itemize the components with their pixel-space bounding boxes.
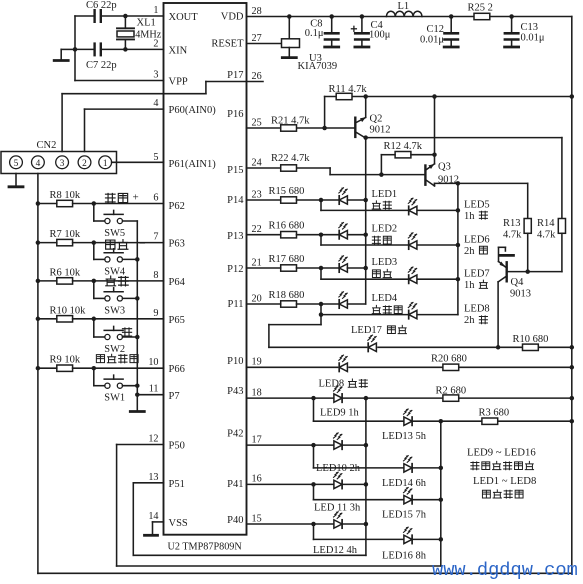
svg-text:P64: P64 — [169, 277, 186, 288]
wire LED17 row — [269, 346, 572, 348]
svg-text:17: 17 — [252, 434, 262, 445]
switch SW3 — [104, 288, 125, 317]
resistor R22 — [271, 153, 310, 171]
svg-text:P63: P63 — [169, 239, 185, 250]
pin 9 P65 label — [153, 308, 184, 326]
wire SW1 left — [94, 368, 105, 386]
node key tap row2 — [92, 279, 97, 284]
svg-text:LED7: LED7 — [464, 269, 490, 280]
node right bus R10 — [570, 345, 575, 350]
label LED4 — [372, 293, 403, 314]
node LED10 right — [364, 443, 369, 448]
wire P41 row — [247, 483, 366, 485]
wire SW3 left — [94, 281, 105, 299]
pin 24 P15 label — [227, 157, 262, 176]
wire VSS pin14 — [153, 522, 164, 534]
pin 4 P60(AIN0) label — [153, 98, 216, 116]
LED LED8 start — [339, 355, 348, 372]
svg-text:14: 14 — [148, 511, 158, 522]
pin 28 VDD label — [221, 6, 262, 23]
resistor R18 — [247, 290, 340, 307]
node right bus R20 — [570, 365, 575, 370]
wire P43 row — [247, 397, 572, 399]
node R12 right — [432, 152, 437, 157]
wire LED17 step — [269, 315, 321, 348]
svg-text:P65: P65 — [169, 315, 185, 326]
node column1 LED3 — [363, 266, 368, 271]
node P7 join — [135, 392, 140, 397]
pin 27 RESET label — [211, 33, 261, 50]
svg-text:P51: P51 — [169, 479, 185, 490]
node Q2 base junction — [322, 126, 327, 131]
pin 19 P10 label — [227, 356, 262, 368]
node right bus R11 — [570, 94, 575, 99]
label LED12 4h — [313, 545, 358, 556]
svg-text:LED14 6h: LED14 6h — [382, 478, 427, 489]
pin 15 P40 label — [227, 513, 262, 526]
svg-text:C12: C12 — [426, 24, 444, 35]
label LED6 — [464, 235, 490, 258]
svg-text:P15: P15 — [227, 165, 243, 176]
svg-text:P40: P40 — [227, 515, 243, 526]
svg-text:www.dgdqw.com: www.dgdqw.com — [432, 559, 578, 581]
wire CN2 pin3 to P17 route — [62, 82, 263, 152]
pin 1 XOUT label — [153, 5, 198, 23]
LED LED2 — [339, 222, 366, 239]
svg-text:5: 5 — [14, 159, 19, 169]
wire SW2 right — [123, 336, 138, 338]
node column1 LED1 — [363, 198, 368, 203]
svg-text:R15 680: R15 680 — [269, 186, 305, 197]
transistor Q2 9012 — [355, 114, 390, 139]
resistor R20 — [431, 354, 467, 371]
svg-text:SW3: SW3 — [104, 305, 125, 316]
resistor R15 — [247, 186, 340, 203]
node U3 top — [287, 14, 292, 19]
pin 7 P63 label — [153, 232, 184, 250]
wire R12 right up — [434, 97, 436, 164]
pin 25 P16 label — [227, 109, 262, 128]
resistor R13 — [503, 218, 531, 272]
svg-text:XIN: XIN — [169, 46, 188, 57]
svg-text:VSS: VSS — [169, 518, 188, 529]
switch SW4 — [104, 249, 126, 278]
resistor R3 — [479, 408, 510, 425]
connector CN2 — [1, 152, 117, 174]
node LED8 branch corner — [319, 312, 324, 317]
wire R22 pin24 — [247, 168, 426, 175]
wire XIN pin2 to C7 — [101, 48, 164, 50]
svg-text:VPP: VPP — [169, 77, 188, 88]
IC U3 KIA7039 — [282, 17, 338, 73]
capacitor C12 — [420, 14, 458, 47]
label LED15 7h — [382, 510, 427, 521]
svg-text:LED13 5h: LED13 5h — [382, 431, 427, 442]
svg-text:LED3: LED3 — [372, 257, 398, 268]
node LED14 right — [439, 466, 444, 471]
node LED12 right — [364, 522, 369, 527]
label gongnengxuanze (function select) — [96, 354, 138, 363]
resistor R11 — [329, 84, 368, 100]
node LED15 right — [439, 497, 444, 502]
ground crystal block — [54, 49, 75, 60]
wire CN2 pin2 to P60 pin4 — [85, 109, 164, 151]
node SW2 join — [135, 335, 140, 340]
resistor R16 — [247, 221, 340, 238]
resistor R7 — [38, 229, 164, 246]
wire VDD rail — [247, 16, 572, 18]
svg-text:P60(AIN0): P60(AIN0) — [169, 105, 217, 116]
capacitor C8 — [305, 14, 339, 47]
svg-text:LED5: LED5 — [464, 200, 490, 211]
svg-text:P10: P10 — [227, 356, 243, 367]
svg-text:100μ: 100μ — [369, 30, 391, 41]
svg-text:P61(AIN1): P61(AIN1) — [169, 159, 217, 170]
svg-text:4.7k: 4.7k — [537, 230, 556, 241]
label LED9 1h — [320, 408, 360, 419]
wire CN2 pin1 to P61 pin5 — [112, 161, 164, 163]
label guan (off) — [122, 328, 131, 337]
svg-text:P66: P66 — [169, 364, 185, 375]
node XL1 bottom — [123, 47, 128, 52]
label kaishi (start) — [106, 276, 128, 286]
label LED2 — [372, 224, 398, 245]
svg-text:5: 5 — [153, 152, 158, 163]
svg-text:SW1: SW1 — [104, 393, 125, 404]
wire branch LED6 — [321, 235, 408, 245]
pin 20 P11 label — [228, 293, 262, 310]
pin 6 P62 label — [153, 193, 184, 213]
svg-text:3: 3 — [153, 70, 158, 81]
resistor R10 — [513, 334, 549, 351]
svg-text:1: 1 — [153, 5, 158, 16]
resistor R14 — [507, 218, 566, 272]
svg-text:13: 13 — [148, 472, 158, 483]
node LED9 right — [364, 396, 369, 401]
svg-text:CN2: CN2 — [37, 140, 57, 151]
transistor Q3 9012 — [425, 162, 459, 186]
wire SW5 left — [94, 204, 105, 222]
svg-text:LED1: LED1 — [372, 189, 398, 200]
svg-text:7: 7 — [153, 232, 158, 243]
LED LED4 — [339, 291, 366, 308]
note timer indication — [471, 461, 534, 469]
node LED11 left — [311, 482, 316, 487]
wire branch LED7 — [321, 268, 408, 279]
switch SW2 — [104, 326, 125, 355]
node LED10 left — [311, 443, 316, 448]
label LED8 start — [319, 379, 368, 390]
pin 23 P14 label — [227, 189, 262, 206]
wire R11 row — [325, 96, 572, 98]
resistor R25 — [468, 3, 493, 20]
svg-text:P17: P17 — [227, 70, 243, 81]
wire Q2 collector to R14 — [366, 138, 562, 219]
svg-text:XL1: XL1 — [137, 18, 156, 29]
wire branch LED5 — [321, 200, 408, 210]
svg-text:Q2: Q2 — [370, 114, 383, 125]
svg-text:R20 680: R20 680 — [431, 354, 467, 365]
svg-text:2: 2 — [153, 38, 158, 49]
pin 26 P17 label — [227, 70, 262, 82]
watermark www.dgdqw.com — [432, 559, 578, 581]
svg-text:26: 26 — [252, 71, 262, 82]
node LED9 left — [311, 396, 316, 401]
resistor R9 — [38, 355, 164, 372]
wire column2 bottom — [440, 421, 442, 566]
svg-text:–: – — [139, 237, 146, 249]
node R2 bus — [570, 396, 575, 401]
pin 18 P43 label — [227, 386, 262, 398]
svg-text:U2 TMP87P809N: U2 TMP87P809N — [168, 542, 243, 553]
wire P10 row — [247, 366, 572, 368]
resistor R2 — [436, 386, 467, 402]
node SW3 join — [135, 296, 140, 301]
wire RESET pin27 — [247, 43, 282, 45]
svg-text:P41: P41 — [227, 479, 243, 490]
svg-text:C6 22p: C6 22p — [86, 0, 117, 11]
svg-text:R6 10k: R6 10k — [50, 267, 81, 278]
node R12 feed — [432, 94, 437, 99]
svg-text:LED1 ~ LED8: LED1 ~ LED8 — [473, 475, 536, 487]
svg-text:2h: 2h — [464, 315, 475, 326]
svg-text:P12: P12 — [227, 264, 243, 275]
crystal XL1 — [117, 16, 162, 49]
LED LED7 — [408, 267, 458, 284]
svg-text:+: + — [133, 191, 139, 203]
node key tap row4 — [92, 366, 97, 371]
label dingshi- (timer-) — [106, 237, 146, 249]
label LED7 — [464, 269, 490, 292]
wire P50 pin12 route — [117, 445, 441, 567]
wire Q4 emitter to ground — [499, 247, 506, 261]
label LED16 8h — [382, 551, 427, 562]
node R3 bus — [570, 419, 575, 424]
node Q2 collector — [363, 135, 368, 140]
switch SW5 — [104, 210, 125, 239]
svg-text:1: 1 — [103, 159, 108, 169]
pin 5 P61(AIN1) label — [153, 152, 216, 170]
svg-text:1h: 1h — [464, 280, 475, 291]
LED LED17 — [368, 335, 377, 352]
wire branch LED8 — [321, 304, 408, 315]
wire column1 bottom — [365, 398, 367, 555]
node key tap row0 — [92, 201, 97, 206]
svg-text:0.01μ: 0.01μ — [420, 35, 444, 46]
svg-text:10: 10 — [148, 357, 158, 368]
LED LED13 — [404, 409, 413, 426]
svg-text:R10 680: R10 680 — [513, 334, 549, 345]
resistor R21 — [271, 116, 310, 132]
svg-text:RESET: RESET — [211, 38, 244, 49]
svg-text:9: 9 — [153, 308, 158, 319]
svg-text:C7 22p: C7 22p — [86, 60, 117, 71]
svg-text:P43: P43 — [227, 386, 243, 397]
svg-text:VDD: VDD — [221, 12, 244, 23]
wire LED14 branch — [314, 445, 441, 468]
svg-text:3: 3 — [60, 159, 65, 169]
label LED8 — [464, 304, 490, 327]
capacitor C4 — [351, 14, 390, 47]
svg-text:12: 12 — [148, 434, 158, 445]
svg-text:R16 680: R16 680 — [269, 221, 305, 232]
pin 3 VPP label — [153, 70, 188, 88]
svg-text:19: 19 — [252, 357, 262, 368]
node XL1 top — [123, 14, 128, 19]
node branch LED3 — [319, 266, 324, 271]
label LED3 — [372, 257, 398, 278]
svg-text:KIA7039: KIA7039 — [298, 61, 338, 72]
note LED9-LED16 — [467, 447, 536, 459]
pin 11 P7 label — [149, 384, 180, 402]
node branch LED2 — [319, 232, 324, 237]
switch SW1 — [104, 375, 125, 404]
pin 16 P41 label — [227, 474, 262, 490]
node LED11 right — [364, 482, 369, 487]
IC U2 label — [168, 542, 243, 553]
wire SW3 right — [123, 297, 138, 299]
LED LED12 — [334, 511, 343, 528]
resistor R10 — [38, 305, 164, 322]
svg-text:P7: P7 — [169, 391, 180, 402]
node left bus row3 — [36, 317, 41, 322]
inductor L1 — [386, 1, 422, 17]
node SW4 join — [135, 257, 140, 262]
svg-text:LED8: LED8 — [464, 304, 490, 315]
ground CN2 pin5 — [9, 174, 23, 187]
node branch LED4 — [319, 302, 324, 307]
capacitor C6 — [86, 0, 117, 22]
svg-text:16: 16 — [252, 474, 262, 485]
svg-text:R3 680: R3 680 — [479, 408, 510, 419]
svg-text:LED4: LED4 — [372, 293, 398, 304]
node X2 column top — [456, 181, 461, 186]
resistor R6 — [38, 267, 164, 284]
note function indication — [482, 490, 523, 498]
svg-text:4: 4 — [36, 159, 41, 169]
LED LED15 — [404, 487, 413, 504]
connector CN2 label — [37, 140, 57, 151]
label LED5 — [464, 200, 490, 223]
svg-text:6: 6 — [153, 193, 158, 204]
wire P40 row — [247, 523, 366, 525]
svg-text:XOUT: XOUT — [169, 12, 199, 23]
svg-text:2: 2 — [82, 159, 87, 169]
svg-text:0.1μ: 0.1μ — [305, 28, 324, 39]
svg-text:R17 680: R17 680 — [269, 254, 305, 265]
svg-text:LED12 4h: LED12 4h — [313, 545, 358, 556]
svg-text:LED9 1h: LED9 1h — [320, 408, 360, 419]
pin 17 P42 label — [227, 429, 262, 446]
svg-text:P50: P50 — [169, 441, 185, 452]
node Q4 collector on R10 row — [496, 345, 501, 350]
svg-text:23: 23 — [252, 189, 262, 200]
IC U2 TMP87P809N box — [164, 3, 247, 535]
LED LED9 — [334, 386, 343, 403]
wire Q2 collector junction — [365, 138, 367, 304]
wire SW1 right — [123, 385, 138, 387]
LED LED16 — [404, 527, 413, 544]
node left bus row0 — [36, 201, 41, 206]
LED LED1 — [339, 187, 366, 204]
svg-text:4: 4 — [153, 98, 158, 109]
wire R21 pin25 — [247, 127, 356, 129]
svg-text:P13: P13 — [227, 231, 243, 242]
node key tap row3 — [92, 317, 97, 322]
svg-text:LED15 7h: LED15 7h — [382, 510, 427, 521]
wire C6 left to corner — [75, 16, 95, 49]
LED LED10 — [334, 433, 343, 450]
wire SW2 left — [94, 319, 105, 337]
wire Q3 collector — [435, 183, 528, 218]
node key tap row1 — [92, 240, 97, 245]
svg-text:18: 18 — [252, 387, 262, 398]
node column2 top — [439, 419, 444, 424]
LED LED11 — [334, 472, 343, 489]
node LED16 right — [439, 537, 444, 542]
ground VSS — [145, 534, 158, 537]
wire P7 pin11 — [137, 394, 163, 396]
svg-text:P42: P42 — [227, 429, 243, 440]
svg-text:R22 4.7k: R22 4.7k — [271, 153, 310, 164]
LED LED5 — [408, 198, 458, 215]
wire XOUT pin1 to C6 and XL1 top — [101, 15, 164, 17]
label LED10 2h — [316, 463, 361, 474]
wire LED13 branch — [314, 398, 572, 421]
node C7-ground junction — [73, 47, 78, 52]
svg-text:LED2: LED2 — [372, 224, 398, 235]
svg-text:28: 28 — [252, 6, 262, 17]
svg-text:R12 4.7k: R12 4.7k — [384, 141, 423, 152]
node Q2 emitter — [363, 94, 368, 99]
capacitor C7 — [86, 44, 117, 71]
label LED14 6h — [382, 478, 427, 489]
svg-text:LED16 8h: LED16 8h — [382, 551, 427, 562]
wire bottom border — [38, 572, 572, 574]
ground key bus — [130, 410, 144, 413]
wire LED15 branch — [314, 484, 441, 499]
wire R11 left down — [324, 97, 326, 129]
svg-text:R8 10k: R8 10k — [50, 190, 81, 201]
pin 8 P64 label — [153, 270, 185, 288]
svg-text:9012: 9012 — [370, 125, 391, 136]
node SW1 join — [135, 383, 140, 388]
wire column2 Q3 — [457, 183, 459, 314]
svg-text:SW5: SW5 — [104, 228, 125, 239]
wire SW4 right — [123, 258, 138, 260]
svg-text:P14: P14 — [227, 195, 244, 206]
label LED1 — [372, 189, 398, 209]
pin 21 P12 label — [227, 257, 262, 275]
capacitor C13 — [505, 14, 545, 47]
pin 10 P66 label — [148, 357, 185, 375]
svg-text:R18 680: R18 680 — [269, 290, 305, 301]
resistor R12 — [381, 141, 434, 175]
svg-text:R10 10k: R10 10k — [50, 305, 87, 316]
wire C7 left — [75, 48, 95, 50]
svg-text:R25 2: R25 2 — [468, 3, 493, 14]
wire Q4 collector — [497, 282, 499, 347]
pin 22 P13 label — [227, 224, 262, 242]
node Q3 base junction — [379, 172, 384, 177]
ground Q4 emitter — [500, 254, 514, 257]
pin 2 XIN label — [153, 38, 187, 56]
LED LED14 — [404, 455, 413, 472]
svg-text:11: 11 — [149, 384, 159, 395]
node LED12 left — [311, 522, 316, 527]
wire Q2 emitter up — [365, 97, 367, 118]
svg-text:24: 24 — [252, 157, 262, 168]
